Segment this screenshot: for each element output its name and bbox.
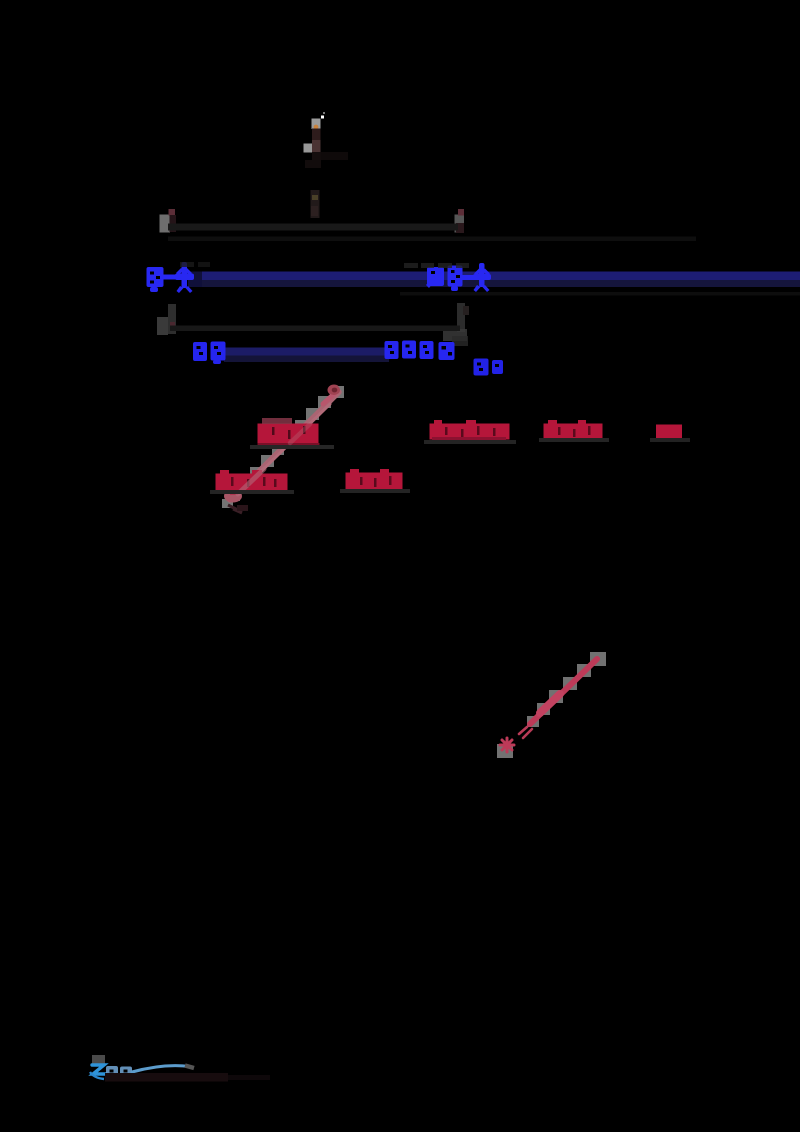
pink check stroke 1 (diagonal, with blocky gray paper halo) [222, 386, 344, 513]
faint answer-blank line under block A [250, 445, 334, 449]
"Z"-like glyph [92, 1065, 106, 1074]
pink stroke 1 overlay crossing red row 2 [238, 469, 264, 494]
red pen dot on top of stroke 1 tip [328, 385, 340, 395]
red answer text row 1 block D [656, 425, 682, 440]
blue handwriting row 1 left ("char - arrow") [147, 262, 195, 293]
blue handwriting row 1 right ("不..-arrow") [426, 263, 491, 292]
faint printed line row 2 [170, 326, 460, 332]
red answer text row 2 block A [216, 470, 288, 495]
red answer text row 1 block C [544, 420, 603, 439]
blue handwriting row 2 right (four chars) [385, 341, 455, 361]
faint dark underline [105, 1073, 228, 1082]
light blue pen scribble bottom left [90, 1055, 270, 1082]
node cluster right (row 2) [443, 303, 469, 346]
faint printed line row 1 [168, 224, 458, 231]
faint dashed text row under line 1 [168, 237, 696, 242]
faint answer-blank line under row2 A [210, 490, 294, 494]
red answer text row 1 block A [258, 418, 320, 447]
red pen dot (under center) [328, 385, 341, 396]
blue handwriting small (lower right of row 2) [474, 359, 504, 376]
node cluster center (row 1 stem) [311, 190, 320, 218]
photo fragment top (tiny seedling picture remnant) [304, 112, 349, 168]
faint answer-blank line under block C [539, 438, 609, 442]
pink check stroke 2 (lower right, with blocky gray paper halo) [497, 652, 606, 758]
long swoosh stroke [132, 1066, 190, 1072]
navy underline bar row 1 (pen line to right edge) [188, 272, 800, 288]
faint dashed text row under navy bar [400, 292, 800, 296]
node cluster right (row 1) [455, 209, 465, 233]
faint answer-blank line under block B [424, 440, 516, 444]
node cluster left (row 2) [157, 304, 176, 335]
faint answer-blank line under block D [650, 438, 690, 442]
lighter smear chars [106, 1066, 132, 1079]
node cluster left (row 1) [160, 209, 177, 233]
star blob at stroke 2 foot [500, 738, 514, 752]
faint answer-blank line under row2 B [340, 489, 410, 493]
pink stroke 1 overlay crossing red row 1 [290, 424, 310, 443]
red answer text row 2 block B [346, 469, 403, 490]
navy underline bar row 2 [224, 348, 389, 363]
red answer text row 1 block B [430, 420, 510, 440]
blue handwriting row 2 left (two chars) [193, 342, 226, 365]
faint printed text above right blue [404, 263, 469, 268]
